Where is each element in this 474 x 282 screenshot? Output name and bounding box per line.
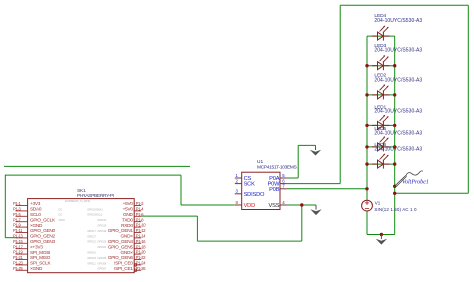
SK1 pin P1-23 stub	[16, 264, 28, 266]
svg-text:GPIO_GEN2: GPIO_GEN2	[30, 234, 55, 239]
SK1 pin P1-19 stub	[16, 253, 28, 255]
svg-text:GP04: GP04	[59, 219, 66, 222]
LED LED4 204-10UYC/S530-A3	[372, 26, 390, 41]
svg-text:P1-19: P1-19	[13, 250, 23, 255]
svg-text:P1-13: P1-13	[13, 234, 23, 239]
LED LED6 204-10UYC/S530-A3	[372, 154, 390, 169]
ground bottom	[376, 235, 387, 245]
svg-text:GPIO27: GPIO27	[87, 235, 96, 238]
svg-text:GPIO09: GPIO09	[87, 257, 96, 260]
svg-text:GPIO10: GPIO10	[87, 252, 96, 255]
svg-text:GND: GND	[123, 212, 134, 217]
connector SK1 box	[28, 199, 135, 273]
svg-text:GPIO11: GPIO11	[87, 262, 96, 265]
wire net P0W vertical down right	[467, 5, 469, 193]
svg-text:P1-17: P1-17	[13, 244, 23, 249]
svg-text:GPIO07: GPIO07	[98, 268, 107, 271]
svg-text:P1-3: P1-3	[13, 207, 21, 212]
svg-text:SDISDO: SDISDO	[244, 192, 265, 198]
SK1 pin P1-22 stub	[134, 259, 141, 261]
svg-text:GPIO15: GPIO15	[98, 225, 107, 228]
wire net GND from P1-6	[141, 215, 197, 217]
op U1 box	[242, 172, 280, 209]
wire net P0W vertical up left	[339, 5, 341, 183]
junction P0B left rail	[365, 187, 368, 190]
SK1 pin P1-25 stub	[16, 269, 28, 271]
svg-text:204-10UYC/S530-A3: 204-10UYC/S530-A3	[374, 131, 422, 137]
SK1 pin P1-9 stub	[16, 226, 28, 228]
U1 pin 6 stub	[280, 183, 287, 185]
svg-text:GPIO17: GPIO17	[87, 230, 96, 233]
SK1 pin P1-17 stub	[16, 248, 28, 250]
wire net GPIO_GEN0 horizontal dangling	[4, 165, 190, 167]
svg-text:GPIO18: GPIO18	[98, 230, 107, 233]
wire net VDD vertical drop at x181	[180, 175, 182, 205]
svg-text:GPIO_GEN1: GPIO_GEN1	[108, 228, 133, 233]
svg-text:P1-22: P1-22	[136, 255, 146, 260]
svg-text:P1-21: P1-21	[13, 255, 23, 260]
svg-text:P1-8: P1-8	[136, 217, 144, 222]
SK1 pin P1-1 stub	[16, 205, 28, 207]
wire LED5 row	[367, 146, 395, 148]
svg-text:P1-4: P1-4	[136, 207, 144, 212]
svg-text:+5V0: +5V0	[123, 207, 134, 212]
svg-text:GPIO14: GPIO14	[98, 219, 107, 222]
SK1 pin P1-10 stub	[134, 226, 141, 228]
wire net P0W from U1 pin 6	[287, 183, 340, 185]
svg-text:GPIO_GEN0: GPIO_GEN0	[30, 228, 55, 233]
svg-text:204-10UYC/S530-A3: 204-10UYC/S530-A3	[374, 109, 422, 115]
SK1 pin P1-15 stub	[16, 242, 28, 244]
junction right rail y94.9	[393, 93, 396, 96]
SK1 pin P1-18 stub	[134, 248, 141, 250]
svg-text:204-10UYC/S530-A3: 204-10UYC/S530-A3	[374, 146, 422, 152]
wire net P0B from U1 pin 7	[287, 188, 367, 190]
probe VoltProbe1 symbol	[395, 171, 423, 187]
svg-text:SPI_MOSI: SPI_MOSI	[30, 250, 50, 255]
svg-text:P1-5: P1-5	[13, 212, 21, 217]
svg-text:GPIO22: GPIO22	[87, 241, 96, 244]
svg-text:GPIO_GEN4: GPIO_GEN4	[108, 239, 133, 244]
svg-text:VDD: VDD	[244, 203, 256, 209]
svg-text:P1-18: P1-18	[136, 244, 146, 249]
svg-text:I2C: I2C	[59, 208, 63, 211]
LED LED1 204-10UYC/S530-A3	[372, 115, 390, 130]
svg-text:GPIO_GEN3: GPIO_GEN3	[30, 239, 55, 244]
LED LED2 204-10UYC/S530-A3	[372, 84, 390, 99]
wire net P0W horizontal top	[340, 4, 468, 6]
svg-text:RASPBERRY_PI_40PIN: RASPBERRY_PI_40PIN	[65, 200, 91, 203]
svg-text:×+3V3: ×+3V3	[30, 244, 43, 249]
svg-text:MCP4151T-103EMS: MCP4151T-103EMS	[257, 164, 297, 170]
svg-text:GPIO_GEN5: GPIO_GEN5	[108, 244, 133, 249]
U1 pin 7 stub	[280, 188, 287, 190]
wire net VDD horizontal top	[5, 174, 181, 176]
wire left rail lower	[366, 211, 368, 235]
SK1 pin P1-11 stub	[16, 232, 28, 234]
junction left rail y146.9	[365, 145, 368, 148]
junction left rail y125.4	[365, 124, 368, 127]
wire net P0W join right rail	[395, 192, 469, 194]
svg-text:P1-23: P1-23	[13, 261, 23, 266]
wire net VDD to P1-13 pin	[5, 237, 15, 239]
SK1 pin bubble P1-24	[134, 264, 137, 267]
svg-text:SPI_SCLK: SPI_SCLK	[30, 261, 52, 266]
svg-text:P1-20: P1-20	[136, 250, 146, 255]
wire LED4 row	[367, 35, 395, 37]
svg-text:204-10UYC/S530-A3: 204-10UYC/S530-A3	[374, 78, 422, 84]
SK1 pin P1-24 stub	[134, 264, 141, 266]
svg-text:P1-10: P1-10	[136, 223, 146, 228]
wire net GND vertical up to VSS	[301, 205, 303, 241]
junction P0W right rail	[393, 192, 396, 195]
junction left rail y94.9	[365, 93, 368, 96]
wire left rail upper	[366, 36, 368, 200]
svg-text:SIN(12 1.50) AC 1 0: SIN(12 1.50) AC 1 0	[374, 207, 417, 212]
SK1 pin P1-14 stub	[134, 237, 141, 239]
wire bottom rail	[367, 234, 395, 236]
svg-text:!SPI_CE0: !SPI_CE0	[114, 261, 133, 266]
SK1 pin P1-3 stub	[16, 210, 28, 212]
svg-text:GPIO02/SDA1: GPIO02/SDA1	[87, 208, 103, 211]
svg-text:GPIO08: GPIO08	[98, 262, 107, 265]
junction right rail y65.7	[393, 64, 396, 67]
SK1 pin P1-4 stub	[134, 210, 141, 212]
wire net P0A vertical up	[297, 145, 299, 178]
SK1 pin P1-21 stub	[16, 259, 28, 261]
wire right rail	[394, 36, 396, 234]
U1 pin 8 stub	[235, 204, 242, 206]
svg-text:+5V0: +5V0	[123, 201, 134, 206]
svg-text:SCL0: SCL0	[30, 212, 41, 217]
svg-text:GPIO_GEN6: GPIO_GEN6	[108, 255, 133, 260]
svg-text:×GND: ×GND	[30, 223, 43, 228]
SK1 pin P1-5 stub	[16, 215, 28, 217]
ground near VSS	[310, 205, 321, 215]
svg-text:P1-7: P1-7	[13, 217, 21, 222]
SK1 pin P1-20 stub	[134, 253, 141, 255]
U1 pin 1 stub	[235, 177, 242, 179]
SK1 pin P1-2 stub	[134, 205, 141, 207]
ground near P0A	[310, 145, 321, 155]
wire LED1 row	[367, 124, 395, 126]
svg-text:P1-11: P1-11	[13, 228, 23, 233]
SK1 pin P1-26 stub	[134, 269, 141, 271]
svg-text:GPIO03/SCL1: GPIO03/SCL1	[87, 214, 103, 217]
svg-text:V1: V1	[375, 200, 381, 205]
wire net VDD into U1 pin 8	[181, 204, 235, 206]
wire LED2 row	[367, 94, 395, 96]
SK1 pin P1-7 stub	[16, 221, 28, 223]
svg-text:GPIO25: GPIO25	[98, 257, 107, 260]
U1 pin 4 stub	[280, 204, 287, 206]
svg-text:SPI_MISO: SPI_MISO	[30, 255, 51, 260]
svg-text:P1-15: P1-15	[13, 239, 23, 244]
wire net VDD vertical left	[4, 175, 6, 238]
junction probe right rail	[393, 185, 396, 188]
svg-text:P1-1: P1-1	[13, 201, 21, 206]
svg-text:GND×: GND×	[121, 234, 134, 239]
svg-text:P1-12: P1-12	[136, 228, 146, 233]
U1 pin 3 stub	[235, 193, 242, 195]
SK1 pin P1-13 stub	[16, 237, 28, 239]
svg-text:RXD0: RXD0	[121, 223, 133, 228]
junction left rail y164.1	[365, 162, 368, 165]
svg-text:PI-RASPBERRY-PI: PI-RASPBERRY-PI	[77, 193, 114, 199]
svg-text:VSS: VSS	[269, 203, 280, 209]
U1 pin 5 stub	[280, 177, 287, 179]
svg-text:I2C: I2C	[59, 214, 63, 217]
wire net GND horizontal bottom	[197, 240, 301, 242]
svg-text:U1: U1	[257, 159, 263, 165]
LED LED5 204-10UYC/S530-A3	[372, 136, 390, 151]
svg-text:SCK: SCK	[244, 182, 256, 188]
wire LED6 row	[367, 163, 395, 165]
svg-text:×GND: ×GND	[30, 266, 43, 271]
SK1 pin P1-12 stub	[134, 232, 141, 234]
junction right rail y125.4	[393, 124, 396, 127]
svg-text:P1-9: P1-9	[13, 223, 21, 228]
junction right rail y146.9	[393, 145, 396, 148]
svg-text:P1-26: P1-26	[136, 266, 146, 271]
svg-text:P0B: P0B	[269, 187, 280, 193]
svg-text:GPIO24: GPIO24	[98, 246, 107, 249]
svg-text:204-10UYC/S530-A3: 204-10UYC/S530-A3	[374, 18, 422, 24]
svg-text:P1-6: P1-6	[136, 212, 144, 217]
svg-text:+3V3: +3V3	[30, 201, 41, 206]
svg-text:GPIO23: GPIO23	[98, 241, 107, 244]
SK1 pin P1-16 stub	[134, 242, 141, 244]
junction left rail y65.7	[365, 64, 368, 67]
svg-text:VoltProbe1: VoltProbe1	[402, 180, 429, 186]
svg-text:SDA0: SDA0	[30, 207, 42, 212]
wire net P0A from U1 pin 5	[287, 177, 298, 179]
wire net P0A horizontal to ground	[298, 144, 315, 146]
wire net GND VSS pin 4 to junction	[287, 204, 316, 206]
junction right rail y164.1	[393, 162, 396, 165]
svg-text:204-10UYC/S530-A3: 204-10UYC/S530-A3	[374, 48, 422, 54]
svg-text:P1-16: P1-16	[136, 239, 146, 244]
svg-text:GND×: GND×	[121, 250, 134, 255]
SK1 pin bubble P1-26	[134, 269, 137, 272]
svg-text:TXD0: TXD0	[122, 217, 134, 222]
svg-text:P1-25: P1-25	[13, 266, 23, 271]
voltage source V1	[362, 200, 373, 211]
junction bottom ground	[380, 233, 383, 236]
SK1 pin P1-6 stub	[134, 215, 141, 217]
svg-text:P1-14: P1-14	[136, 234, 146, 239]
U1 pin 2 stub	[235, 183, 242, 185]
SK1 pin P1-8 stub	[134, 221, 141, 223]
svg-text:!SPI_CE1: !SPI_CE1	[114, 266, 133, 271]
svg-text:P1-2: P1-2	[136, 201, 144, 206]
svg-text:GPIO_GCLK: GPIO_GCLK	[30, 217, 56, 222]
LED LED3 204-10UYC/S530-A3	[372, 55, 390, 70]
wire LED3 row	[367, 65, 395, 67]
junction VSS GND	[300, 203, 303, 206]
svg-text:P1-24: P1-24	[136, 261, 146, 266]
wire net GND vertical down	[196, 216, 198, 241]
